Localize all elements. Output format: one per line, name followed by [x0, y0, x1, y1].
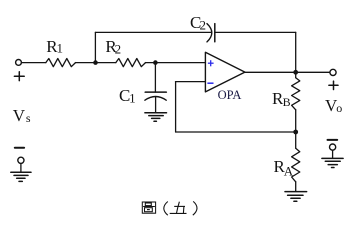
resistor RA	[292, 148, 300, 182]
op-amp U1 triangle	[205, 52, 245, 92]
ground left (source return)	[11, 172, 31, 181]
node D output junction dot	[293, 70, 298, 75]
wire C1 to ground	[155, 97, 157, 112]
feedback wire node C to left	[176, 131, 296, 133]
wire input to R1	[22, 62, 46, 64]
caption glyph open paren	[164, 202, 168, 216]
capacitor C2 curved plate	[207, 24, 212, 42]
Vs minus sign	[15, 147, 24, 149]
label R1	[46, 37, 63, 56]
wire node B down to C1	[154, 63, 156, 93]
resistor RB	[292, 78, 300, 110]
Vo minus sign	[328, 139, 338, 141]
label C2	[190, 13, 206, 33]
ground right (output return)	[322, 158, 343, 167]
label R2	[105, 37, 121, 57]
wire op-amp output to node D	[245, 71, 296, 73]
wire node D to output terminal	[296, 71, 330, 73]
caption glyph 五	[170, 202, 187, 214]
svg-text:B: B	[283, 95, 291, 109]
wire RB to node C	[295, 110, 297, 132]
wire top rail left to C2	[95, 31, 211, 33]
label RA	[274, 157, 294, 179]
label RB	[272, 89, 291, 109]
wire R1 to node A	[76, 62, 96, 64]
node C feedback junction dot	[293, 130, 298, 135]
svg-text:1: 1	[57, 41, 64, 56]
output plus sign	[329, 81, 338, 89]
caption glyph 圖	[142, 202, 155, 213]
svg-text:OPA: OPA	[218, 88, 242, 102]
svg-text:A: A	[284, 164, 294, 179]
op-amp minus input mark	[207, 82, 213, 84]
resistor R2	[116, 59, 146, 67]
left ground terminal circle	[18, 157, 24, 163]
label Vs	[13, 106, 31, 125]
node A junction dot	[93, 60, 98, 65]
svg-text:2: 2	[115, 42, 122, 57]
wire node B to op-amp +in	[155, 62, 205, 64]
right ground terminal circle	[330, 144, 336, 150]
left ground stem	[20, 164, 22, 172]
wire node A to R2	[96, 62, 116, 64]
wire node C down to RA	[295, 132, 297, 148]
node B junction dot	[153, 60, 158, 65]
label C1	[119, 86, 136, 106]
capacitor C1 curved plate	[145, 97, 166, 101]
label Vo	[325, 96, 342, 115]
capacitor C2 straight plate	[214, 24, 216, 42]
ground under RA	[285, 192, 307, 202]
op-amp plus input mark	[208, 60, 214, 66]
svg-text:V: V	[13, 106, 26, 125]
wire RA to ground	[295, 182, 297, 192]
wire right corner down to output node	[295, 32, 297, 72]
wire node A up to top rail	[94, 32, 96, 62]
svg-text:o: o	[336, 101, 342, 115]
output terminal circle	[330, 69, 336, 75]
input plus sign	[14, 72, 24, 81]
wire node D down to RB	[295, 72, 297, 77]
feedback wire to op-amp -in	[176, 81, 206, 83]
input terminal circle	[16, 60, 22, 66]
svg-text:2: 2	[200, 18, 207, 33]
wire C2 to right corner	[215, 31, 296, 33]
svg-text:s: s	[26, 111, 31, 125]
right ground stem	[332, 150, 334, 158]
capacitor C1 straight plate	[145, 91, 166, 93]
wire R2 to node B	[146, 62, 156, 64]
caption glyph close paren	[193, 201, 197, 215]
resistor R1	[46, 59, 76, 67]
svg-text:1: 1	[129, 91, 136, 106]
ground under C1	[145, 113, 167, 122]
feedback wire vertical	[175, 82, 177, 132]
